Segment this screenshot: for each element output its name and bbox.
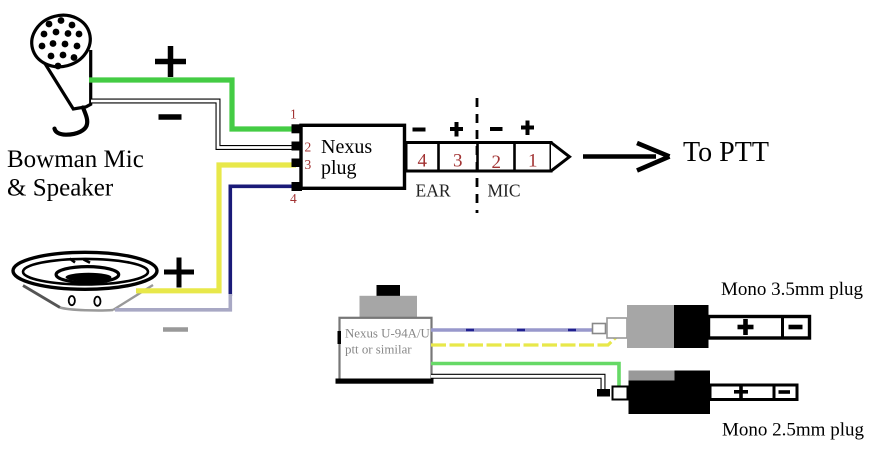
svg-text:2: 2	[305, 140, 312, 155]
svg-text:Nexus: Nexus	[321, 136, 372, 158]
svg-text:1: 1	[528, 151, 538, 172]
sign - above segment 4	[413, 128, 426, 132]
svg-text:3: 3	[305, 157, 312, 172]
sign + in 2.5mm bar	[734, 385, 748, 399]
2.5mm polarity bar	[710, 385, 797, 400]
label - (speaker negative)	[163, 327, 188, 332]
sign + in 3.5mm bar	[738, 319, 754, 335]
wire mic + green	[89, 80, 296, 129]
PTT box	[336, 318, 434, 384]
svg-text:2: 2	[492, 152, 502, 173]
2.5mm plug lug	[613, 387, 628, 400]
wire PTT to 3.5mm sleeve (yellow dashed)	[431, 336, 618, 346]
TRRS tip	[551, 143, 570, 172]
microphone head	[26, 9, 96, 74]
svg-text:MIC: MIC	[488, 181, 521, 201]
svg-text:ptt or similar: ptt or similar	[345, 343, 412, 357]
sign - in 3.5mm bar	[789, 325, 803, 330]
svg-text:Mono 2.5mm plug: Mono 2.5mm plug	[722, 419, 864, 440]
svg-text:& Speaker: & Speaker	[7, 175, 114, 202]
wire PTT to 2.5mm sleeve (white twin-lead)	[431, 376, 603, 389]
2.5mm plug body	[629, 371, 711, 415]
svg-text:plug: plug	[321, 157, 357, 179]
svg-text:4: 4	[290, 191, 297, 206]
3.5mm plug body gray	[627, 305, 674, 348]
microphone body	[44, 38, 91, 109]
wire speaker - navy	[230, 186, 296, 296]
3.5mm polarity bar	[709, 317, 810, 339]
3.5mm plug body black	[674, 305, 709, 348]
speaker	[13, 252, 157, 311]
arrow to PTT	[583, 143, 670, 171]
pin 1	[292, 124, 303, 133]
EAR MIC divider dashed	[476, 98, 479, 213]
microphone hook clip	[55, 108, 88, 135]
svg-text:Nexus U-94A/U: Nexus U-94A/U	[345, 327, 431, 341]
svg-text:3: 3	[453, 151, 463, 172]
PTT switch button base	[360, 296, 418, 318]
svg-text:Bowman Mic: Bowman Mic	[7, 146, 144, 173]
pin 2	[292, 142, 303, 151]
3.5mm plug tip	[593, 324, 606, 334]
svg-text:To PTT: To PTT	[683, 137, 769, 168]
PTT switch button cap	[377, 285, 401, 296]
label + (mic positive)	[155, 46, 186, 77]
svg-text:Mono 3.5mm plug: Mono 3.5mm plug	[721, 279, 863, 300]
sign + above segment 1	[521, 121, 534, 136]
Nexus plug box	[301, 125, 405, 188]
pin 4	[292, 182, 303, 191]
wire PTT to 2.5mm tip (green)	[431, 364, 619, 387]
label - (mic negative)	[159, 114, 182, 120]
wire mic - white twin-lead	[91, 101, 294, 148]
svg-text:1: 1	[290, 107, 297, 122]
svg-text:4: 4	[418, 151, 428, 172]
TRRS plug bar	[406, 143, 551, 172]
wire speaker + yellow	[136, 165, 296, 291]
2.5mm plug tip	[597, 389, 610, 397]
3.5mm plug lug	[607, 318, 627, 338]
pin 3	[292, 159, 303, 168]
sign - above segment 2	[490, 127, 503, 131]
label + (speaker positive)	[164, 258, 194, 288]
wire PTT to 3.5mm tip (lavender/navy dashed)	[431, 328, 593, 331]
sign + above segment 3	[450, 122, 463, 137]
sign - in 2.5mm bar	[779, 390, 791, 394]
microphone grille dots	[39, 17, 83, 69]
wire speaker - gray segment	[115, 294, 230, 310]
svg-text:EAR: EAR	[416, 181, 451, 201]
